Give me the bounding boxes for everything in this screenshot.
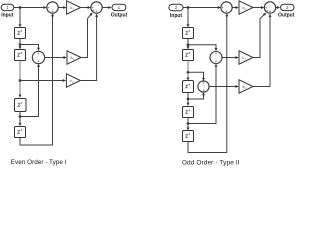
sum S1	[47, 2, 58, 13]
wire Z3r to Z4r	[187, 93, 190, 106]
wire S3 to gain A2	[45, 56, 67, 59]
wire J4 tap up into S3 bottom	[20, 64, 40, 117]
wire feedback Z5r up into S1r bottom	[188, 13, 228, 152]
node J4r between Z3r and Z4r	[187, 98, 190, 101]
wire J1r down to delay Z1r	[187, 8, 190, 28]
wire S4r to gain A2r	[209, 85, 239, 88]
sum S4r	[198, 81, 209, 92]
gain B1r	[239, 51, 253, 64]
node J2 between Z1 and Z2	[19, 43, 22, 46]
svg-text:Output: Output	[111, 13, 128, 19]
wire J5r tap up into S3r bottom	[188, 64, 217, 124]
wire A2 up into S2 diagonal	[81, 13, 93, 58]
node J4 between Z3 and Z4	[19, 115, 22, 118]
delay Z4 (z^-1)	[15, 127, 26, 138]
gain A2r	[239, 80, 253, 93]
node J1r input tap	[187, 6, 190, 9]
wire S1 to gain A1	[58, 6, 66, 9]
wire Input to sum S1	[14, 6, 47, 9]
wire J1 down to delay Z1	[19, 8, 22, 28]
svg-text:Input: Input	[170, 13, 183, 19]
wire Z2 to Z3	[19, 61, 22, 98]
delay Z3r (z^-1)	[183, 81, 194, 93]
svg-text:Input: Input	[1, 13, 14, 19]
output port 1 (Output)	[111, 4, 128, 19]
wire S2r to Output2	[276, 6, 280, 9]
input port 2 (Input)	[169, 4, 183, 19]
svg-text:b0: b0	[70, 78, 74, 84]
wire Z1 to Z2	[19, 39, 22, 50]
sum S3	[32, 51, 44, 63]
wire feedback Z4 up into S1 bottom	[20, 13, 54, 145]
svg-text:b1: b1	[242, 55, 246, 61]
svg-text:a2: a2	[242, 84, 246, 90]
wire B1r up into S2r diagonal	[253, 13, 266, 58]
gain A1	[67, 1, 81, 14]
delay Z1 (z^-1)	[15, 28, 26, 39]
wire Input2 to sum S1r	[183, 6, 221, 9]
node J3 between Z2 and Z3	[19, 79, 22, 82]
wire J2 tap to sum S3 top	[20, 45, 40, 51]
svg-text:A1: A1	[70, 5, 75, 11]
delay Z1r (z^-1)	[183, 28, 194, 39]
wire Z2r to Z3r	[187, 61, 190, 81]
wire S1r to gain B0r	[232, 6, 238, 9]
output port 2 (Output)	[278, 4, 295, 19]
delay Z5r (z^-1)	[183, 131, 194, 142]
svg-text:b0: b0	[242, 5, 246, 11]
wire Z3 to Z4	[19, 112, 22, 127]
wire J2r tap to sum S3r top	[188, 45, 217, 51]
wire A2r up into S2r bottom	[253, 14, 271, 87]
wire J3r tap to sum S4r top	[188, 72, 205, 81]
wire S3r to gain B1r	[222, 56, 239, 59]
delay Z2 (z^-1)	[15, 50, 26, 61]
wire S2 to Output	[102, 6, 111, 9]
wire Z1r to Z2r	[187, 39, 190, 50]
node J5r between Z4r and Z5r	[187, 122, 190, 125]
gain B0r	[239, 1, 253, 14]
sum S3r	[210, 52, 222, 64]
delay Z4r (z^-1)	[183, 107, 194, 118]
sum S1r	[221, 2, 232, 13]
sum S2r	[264, 2, 275, 13]
wire J3 tap to gain b0	[20, 79, 66, 82]
svg-text:Even Order - Type I: Even Order - Type I	[11, 159, 67, 166]
wire A1 to sum S2	[81, 6, 91, 9]
node J3r between Z2r and Z3r	[187, 71, 190, 74]
wire b0 up into S2 bottom	[80, 14, 98, 81]
svg-text:Odd Order - Type II: Odd Order - Type II	[182, 160, 240, 167]
gain b0	[66, 74, 80, 87]
wire J4r tap up into S4r bottom	[188, 92, 205, 99]
svg-text:A2: A2	[70, 55, 75, 61]
wire Z4r to Z5r	[187, 118, 190, 131]
delay Z3 (z^-1)	[15, 99, 27, 112]
node J1 input tap	[19, 6, 22, 9]
delay Z2r (z^-1)	[183, 50, 194, 61]
node J2r between Z1r and Z2r	[187, 43, 190, 46]
input port 1 (Input)	[1, 4, 14, 19]
wire B0r to sum S2r	[253, 6, 264, 9]
sum S2	[91, 2, 102, 13]
gain A2	[67, 51, 81, 64]
svg-text:Output: Output	[278, 13, 295, 19]
